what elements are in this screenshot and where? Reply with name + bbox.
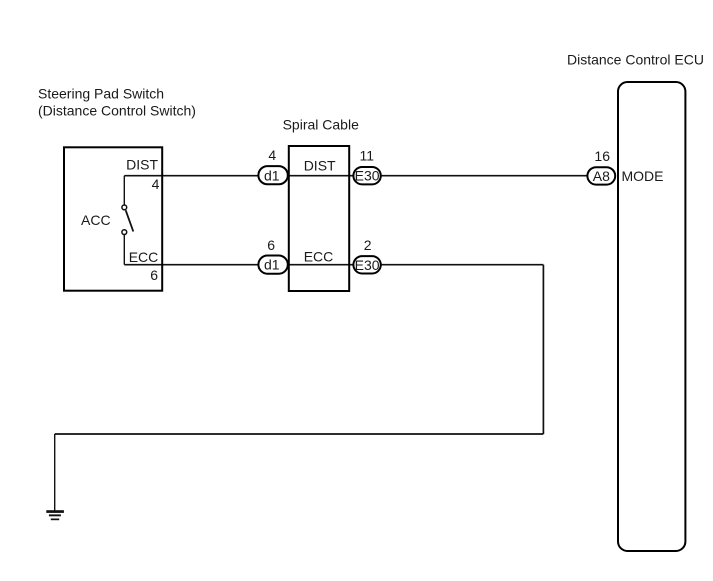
svg-text:6: 6	[150, 267, 158, 283]
svg-text:4: 4	[268, 147, 276, 163]
svg-text:MODE: MODE	[622, 168, 664, 184]
svg-text:DIST: DIST	[304, 158, 336, 174]
svg-text:Distance Control ECU: Distance Control ECU	[567, 52, 704, 68]
svg-text:4: 4	[152, 176, 160, 192]
svg-text:2: 2	[364, 237, 372, 253]
svg-text:16: 16	[594, 148, 610, 164]
svg-text:DIST: DIST	[126, 157, 158, 173]
svg-text:E30: E30	[355, 168, 380, 184]
svg-text:11: 11	[360, 147, 375, 163]
svg-text:(Distance Control Switch): (Distance Control Switch)	[38, 102, 196, 118]
svg-text:ECC: ECC	[304, 248, 334, 264]
svg-text:E30: E30	[355, 257, 380, 273]
svg-text:A8: A8	[593, 168, 610, 184]
svg-text:d1: d1	[264, 257, 280, 273]
svg-text:d1: d1	[264, 167, 280, 183]
svg-text:ECC: ECC	[129, 249, 159, 265]
svg-text:Steering Pad Switch: Steering Pad Switch	[38, 85, 164, 101]
svg-text:ACC: ACC	[81, 212, 111, 228]
svg-text:6: 6	[267, 237, 275, 253]
svg-text:Spiral Cable: Spiral Cable	[283, 117, 359, 133]
